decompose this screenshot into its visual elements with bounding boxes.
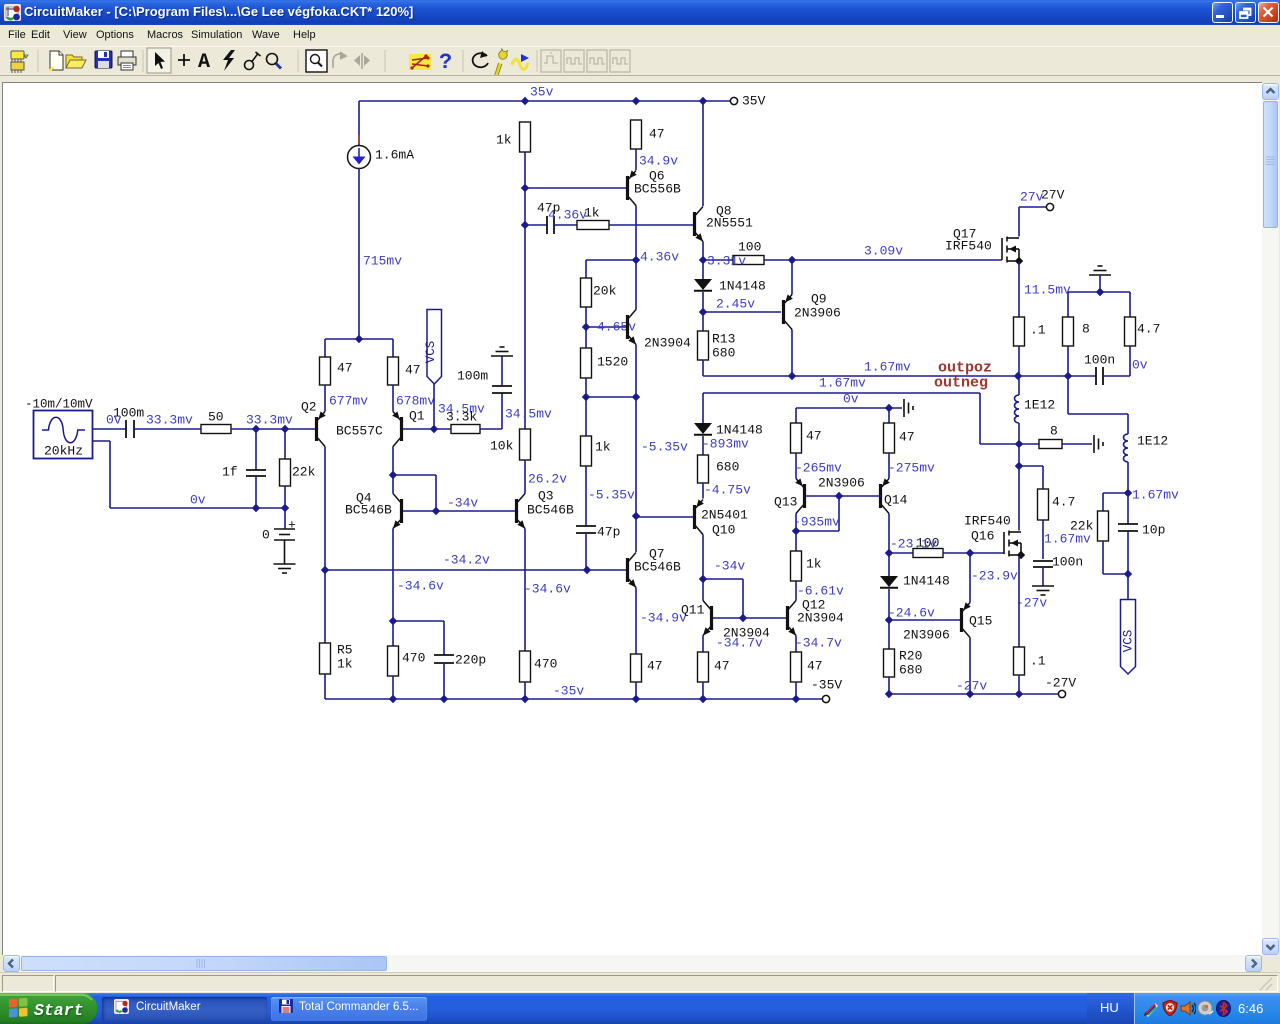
- wire to 47 (Q14): [888, 408, 890, 423]
- wire outneg down: [979, 393, 981, 444]
- wire to L right: [1068, 413, 1128, 415]
- svg-text:0: 0: [262, 528, 270, 543]
- mosfet Q16 IRF540: [1004, 531, 1021, 557]
- svg-text:1.67mv: 1.67mv: [819, 376, 866, 391]
- junction: [632, 695, 640, 703]
- transistor Q8 2N5551 (NPN): [693, 207, 703, 242]
- ground (speaker return): [1089, 266, 1111, 275]
- svg-text:BC557C: BC557C: [336, 424, 383, 439]
- restore button: [1235, 2, 1256, 23]
- junction: [1014, 372, 1022, 380]
- wire Q6 base: [525, 187, 626, 189]
- wire R13 to outpoz: [702, 360, 704, 376]
- svg-text:27V: 27V: [1041, 188, 1065, 203]
- svg-text:-5.35v: -5.35v: [641, 440, 688, 455]
- wire diff collectors rail: [325, 338, 393, 340]
- wire to 220p: [393, 620, 444, 622]
- junction: [739, 614, 747, 622]
- svg-text:47: 47: [405, 363, 421, 378]
- resistor 20k: [581, 278, 592, 307]
- resistor .1 (Q17 source): [1014, 317, 1025, 346]
- wire Q12 emitter: [795, 636, 797, 653]
- svg-text:-34v: -34v: [447, 496, 478, 511]
- menu bar: [0, 25, 1280, 46]
- wire to VCS flag: [1127, 574, 1129, 599]
- svg-text:100n: 100n: [1052, 555, 1083, 570]
- junction: [389, 617, 397, 625]
- svg-text:1N4148: 1N4148: [903, 574, 950, 589]
- wire Q4 emitter down: [392, 529, 394, 647]
- toolbar icon plus: [178, 54, 190, 66]
- resistor 22k (feedback): [1098, 511, 1109, 541]
- svg-text:-5.35v: -5.35v: [588, 488, 635, 503]
- svg-text:-34.7v: -34.7v: [795, 636, 842, 651]
- svg-text:0v: 0v: [190, 493, 206, 508]
- svg-text:Q16: Q16: [971, 529, 994, 544]
- svg-text:100m: 100m: [113, 406, 144, 421]
- wire to 22k: [1103, 492, 1128, 494]
- svg-text:+: +: [288, 518, 296, 533]
- wire D3 to node: [888, 589, 890, 620]
- wire current source to diff pair: [358, 168, 360, 339]
- svg-text:-34v: -34v: [714, 559, 745, 574]
- wire 47 to Q14 emitter: [888, 453, 890, 479]
- wire R50 to Q2 base: [231, 428, 315, 430]
- wire Q8 collector to 35v: [702, 101, 704, 206]
- ground (battery): [274, 564, 296, 573]
- svg-text:-34.6v: -34.6v: [524, 582, 571, 597]
- wire 220p bottom: [443, 663, 445, 699]
- wire 47 to Q13 emitter: [795, 453, 797, 479]
- wire Q9 emitter: [791, 260, 793, 295]
- toolbar icon scope 2 (disabled): [564, 50, 584, 72]
- taskbar button Total Commander: [271, 997, 427, 1021]
- minimize button: [1212, 2, 1233, 23]
- junction: [699, 695, 707, 703]
- transistor Q4 BC546B (NPN): [393, 494, 403, 529]
- svg-text:4.7: 4.7: [1137, 322, 1160, 337]
- svg-text:2N3906: 2N3906: [818, 476, 865, 491]
- transistor Q2 BC557C (PNP): [315, 411, 326, 446]
- transistor Q9 2N3906 (PNP): [782, 294, 793, 329]
- vertical scrollbar: [1262, 83, 1279, 955]
- svg-text:2N3904: 2N3904: [797, 611, 844, 626]
- svg-text:-935mv: -935mv: [793, 515, 840, 530]
- wire Q15 base: [889, 619, 960, 621]
- wire Q8 emitter: [702, 242, 704, 261]
- svg-text:1E12: 1E12: [1137, 434, 1168, 449]
- junction: [430, 425, 438, 433]
- svg-text:47: 47: [714, 659, 730, 674]
- svg-text:1f: 1f: [222, 465, 238, 480]
- wire outneg to D2: [702, 393, 704, 423]
- wire 47 to -35v: [795, 682, 797, 699]
- svg-text:20kHz: 20kHz: [44, 444, 83, 459]
- resistor 4.7: [1125, 317, 1136, 346]
- resistor 47 (Q1): [388, 357, 399, 385]
- svg-text:47: 47: [647, 659, 663, 674]
- svg-text:680: 680: [716, 460, 739, 475]
- wire mirror tie vertical: [838, 496, 840, 531]
- wire Q1 base to 3.3k: [403, 428, 451, 430]
- transistor Q11 2N3904 (NPN): [703, 601, 713, 636]
- resistor R5 1k: [320, 643, 331, 674]
- toolbar icon zoom: [267, 54, 282, 69]
- wire 470 to -35v: [524, 682, 526, 699]
- wire .1 to -27V: [1018, 675, 1020, 694]
- wire L right bottom: [1127, 462, 1129, 493]
- wire Q7 emitter: [635, 588, 637, 655]
- wire 47 to -35v: [702, 682, 704, 699]
- svg-text:Q13: Q13: [774, 495, 797, 510]
- svg-text:-24.6v: -24.6v: [888, 606, 935, 621]
- wire 4.7b to 100n: [1042, 520, 1044, 559]
- transistor Q3 BC546B (NPN): [515, 494, 525, 529]
- wire outneg to node: [980, 443, 1019, 445]
- svg-text:2N5401: 2N5401: [701, 508, 748, 523]
- resistor R20 680: [884, 649, 895, 677]
- wire Q5 emitter: [635, 345, 637, 398]
- wire to D1: [702, 260, 704, 279]
- svg-text:678mv: 678mv: [396, 394, 435, 409]
- junction: [885, 616, 893, 624]
- wire 8-node down: [1067, 376, 1069, 414]
- svg-text:3.3k: 3.3k: [446, 410, 477, 425]
- toolbar icon scope 1 (disabled): [541, 50, 561, 72]
- wire D2 to 680: [702, 436, 704, 455]
- resistor 47 (Q14): [884, 423, 895, 453]
- wire 10p bottom: [1127, 531, 1129, 574]
- wire to 20k: [585, 260, 587, 278]
- wire Q17 drain to 27V: [1018, 207, 1020, 237]
- svg-text:VCS: VCS: [424, 341, 438, 364]
- toolbar icon rotate (disabled): [333, 52, 346, 68]
- toolbar icon print: [118, 51, 136, 70]
- toolbar separator: [297, 50, 299, 72]
- resistor 100 (Q16 gate): [913, 549, 943, 558]
- svg-text:50: 50: [208, 410, 224, 425]
- wire to R8: [1067, 292, 1069, 317]
- svg-text:-265mv: -265mv: [795, 461, 842, 476]
- svg-text:100m: 100m: [457, 369, 488, 384]
- resistor 10k: [520, 429, 531, 460]
- svg-text:VCS: VCS: [1122, 630, 1136, 653]
- svg-text:47: 47: [899, 430, 915, 445]
- ground (bias): [904, 399, 913, 417]
- svg-text:47: 47: [337, 361, 353, 376]
- junction: [966, 549, 974, 557]
- svg-text:Q15: Q15: [969, 614, 992, 629]
- svg-text:IRF540: IRF540: [964, 514, 1011, 529]
- toolbar separator: [462, 50, 464, 72]
- wire Q8 emitter to R100: [703, 259, 733, 261]
- junction: [1064, 372, 1072, 380]
- wire to 10p: [1127, 493, 1129, 524]
- resistor 100 (Q17 gate): [733, 256, 764, 265]
- wire to R47 R: [392, 339, 394, 357]
- wire 47 to Q6 emitter: [635, 149, 637, 170]
- junction: [355, 335, 363, 343]
- junction: [583, 566, 591, 574]
- resistor 1k (Q7): [581, 436, 592, 466]
- svg-text:1k: 1k: [337, 657, 353, 672]
- svg-text:R20: R20: [899, 649, 922, 664]
- junction: [1015, 440, 1023, 448]
- wire L right top: [1127, 414, 1129, 434]
- junction: [632, 393, 640, 401]
- junction: [521, 97, 529, 105]
- svg-text:220p: 220p: [455, 653, 486, 668]
- wire to R100b: [889, 552, 913, 554]
- wire D1 to R13: [702, 292, 704, 331]
- wire down to base rail: [742, 579, 744, 618]
- capacitor 47p: [547, 216, 554, 234]
- wire to R47 L: [324, 339, 326, 357]
- ground (100m): [491, 347, 513, 356]
- capacitor 1f: [246, 470, 266, 476]
- wire 3.3k to 100m: [480, 428, 502, 430]
- toolbar: [0, 46, 1280, 77]
- svg-text:Q9: Q9: [811, 292, 827, 307]
- wire 47p to R 1k: [554, 224, 577, 226]
- svg-text:Q2: Q2: [301, 400, 317, 415]
- wire -35V rail: [325, 698, 822, 700]
- title bar: [0, 0, 1280, 25]
- junction: [582, 393, 590, 401]
- system tray: [1134, 993, 1280, 1024]
- svg-text:33.3mv: 33.3mv: [146, 413, 193, 428]
- toolbar separator: [37, 50, 39, 72]
- wire Q10 base: [636, 516, 693, 518]
- svg-text:Q3: Q3: [538, 489, 554, 504]
- wire Q16 source to .1: [1018, 556, 1020, 647]
- svg-text:1k: 1k: [496, 133, 512, 148]
- wire speaker top: [1068, 291, 1130, 293]
- resistor 470 (Q4): [388, 646, 399, 676]
- terminal 27V: [1046, 203, 1053, 210]
- svg-text:1.67mv: 1.67mv: [1132, 488, 1179, 503]
- wire 100m to R50: [134, 428, 201, 430]
- wire Q14 collector: [888, 514, 890, 554]
- svg-text:1.6mA: 1.6mA: [375, 148, 414, 163]
- wire 22k to 0v: [284, 486, 286, 508]
- wire 470 to -35v: [392, 676, 394, 699]
- wire Q16 drain: [1018, 466, 1020, 531]
- terminal -27V: [1058, 690, 1065, 697]
- wire Q5 collector: [635, 260, 637, 310]
- svg-text:0v: 0v: [843, 392, 859, 407]
- transistor Q7 BC546B (NPN): [626, 553, 636, 588]
- clock: [1238, 1001, 1263, 1016]
- junction: [1096, 288, 1104, 296]
- svg-text:33.3mv: 33.3mv: [246, 413, 293, 428]
- junction: [885, 404, 893, 412]
- svg-text:-35v: -35v: [553, 684, 584, 699]
- battery B1 0V: [274, 508, 295, 564]
- wire source- out: [93, 440, 111, 442]
- wire 20k to node: [585, 307, 587, 327]
- ground (bottom right): [1032, 586, 1054, 595]
- svg-text:2N3906: 2N3906: [903, 628, 950, 643]
- svg-text:-34.7v: -34.7v: [716, 636, 763, 651]
- wire to D3: [888, 553, 890, 576]
- diode D1 1N4148: [694, 279, 712, 290]
- transistor Q10 2N5401 (PNP): [693, 499, 704, 534]
- transistor Q14 2N3906 (PNP): [879, 478, 890, 513]
- svg-text:Start: Start: [34, 1001, 84, 1020]
- svg-text:-34.2v: -34.2v: [443, 553, 490, 568]
- capacitor 10p: [1118, 524, 1138, 531]
- wire y397: [586, 396, 636, 398]
- svg-text:.1: .1: [1030, 654, 1046, 669]
- svg-text:677mv: 677mv: [329, 394, 368, 409]
- wire 27V terminal: [1019, 206, 1046, 208]
- wire VCS to Q1 base: [433, 384, 435, 429]
- mosfet Q17 IRF540: [1002, 237, 1019, 263]
- svg-text:1E12: 1E12: [1024, 398, 1055, 413]
- svg-text:4.7: 4.7: [1052, 495, 1075, 510]
- toolbar icon waveforms: [512, 54, 529, 70]
- capacitor 100n (zobel): [1096, 367, 1103, 385]
- junction: [966, 690, 974, 698]
- svg-text:100: 100: [738, 240, 761, 255]
- start button: [0, 993, 110, 1024]
- resistor 47 (Q7): [631, 654, 642, 682]
- transistor Q12 2N3904 (NPN): [786, 601, 796, 636]
- wire R8 to rail: [1067, 346, 1069, 376]
- wire Q15 collector: [969, 638, 971, 695]
- windows logo: [9, 998, 28, 1018]
- svg-text:-35V: -35V: [811, 678, 842, 693]
- resistor 3.3k: [451, 425, 480, 434]
- svg-text:26.2v: 26.2v: [528, 472, 567, 487]
- svg-text:.1: .1: [1030, 323, 1046, 338]
- capacitor 100m (input): [126, 420, 134, 438]
- svg-text:22k: 22k: [292, 465, 316, 480]
- junction: [281, 504, 289, 512]
- ground (sideways right): [1094, 435, 1103, 453]
- junction: [885, 690, 893, 698]
- resistor 1k (Q8 base): [577, 221, 609, 230]
- junction: [1015, 462, 1023, 470]
- wire mirror tie: [796, 530, 839, 532]
- taskbar button CircuitMaker (active): [102, 997, 267, 1021]
- toolbar icon scope 4 (disabled): [610, 50, 630, 72]
- wire 4.7 to rail: [1129, 346, 1131, 376]
- toolbar icon parts browser: [11, 51, 28, 73]
- wire to 47 (Q13): [795, 408, 797, 423]
- svg-text:-6.61v: -6.61v: [797, 584, 844, 599]
- junction: [792, 695, 800, 703]
- wire node down: [1018, 444, 1020, 466]
- junction: [632, 512, 640, 520]
- junction: [1124, 489, 1132, 497]
- toolbar separator: [384, 50, 386, 72]
- language indicator HU: [1087, 993, 1134, 1024]
- wire outneg: [703, 392, 980, 394]
- wire ground stub: [1099, 275, 1101, 292]
- junction: [440, 695, 448, 703]
- wire to C 47p: [525, 224, 547, 226]
- wire 22k top: [1102, 493, 1104, 511]
- svg-text:BC546B: BC546B: [527, 503, 574, 518]
- wire Q4-Q3 bases: [403, 510, 515, 512]
- wire to 1f: [255, 429, 257, 470]
- svg-text:715mv: 715mv: [363, 254, 402, 269]
- toolbar icon wrench: [492, 48, 509, 77]
- svg-text:-10m/10mV: -10m/10mV: [25, 398, 93, 412]
- wire Q13 collector: [795, 514, 797, 552]
- toolbar separator: [142, 50, 144, 72]
- svg-text:47: 47: [806, 429, 822, 444]
- svg-text:4.36v: 4.36v: [548, 208, 587, 223]
- toolbar icon mirror (disabled): [354, 53, 370, 69]
- junction: [281, 425, 289, 433]
- svg-text:47: 47: [807, 659, 823, 674]
- svg-text:470: 470: [402, 651, 425, 666]
- terminal -35V: [822, 695, 829, 702]
- wire to 4.7b: [1019, 465, 1043, 467]
- diode D3 1N4148: [880, 576, 898, 587]
- status bar: [0, 972, 1280, 994]
- resistor 8 (bottom): [1039, 440, 1062, 449]
- wire Q6 collector: [635, 206, 637, 261]
- transistor Q5 2N3904 (NPN): [626, 310, 636, 345]
- svg-text:1N4148: 1N4148: [716, 423, 763, 438]
- svg-text:-27v: -27v: [956, 679, 987, 694]
- resistor .1 (Q16 source): [1014, 647, 1025, 675]
- taskbar: [0, 993, 1280, 1024]
- resistor 8 (load): [1063, 317, 1074, 346]
- junction: [699, 97, 707, 105]
- transistor Q13 2N3906 (PNP): [795, 478, 806, 513]
- toolbar icon run lightning: [223, 50, 235, 71]
- wire Q2 collector down: [324, 447, 326, 644]
- svg-text:R13: R13: [712, 332, 735, 347]
- junction: [521, 695, 529, 703]
- junction: [885, 549, 893, 557]
- svg-text:-23.9v: -23.9v: [971, 569, 1018, 584]
- svg-text:0v: 0v: [1132, 358, 1148, 373]
- svg-text:3.31v: 3.31v: [707, 254, 746, 269]
- wire R5 to -35v: [324, 674, 326, 699]
- junction: [699, 256, 707, 264]
- wire 100m bottom: [501, 393, 503, 429]
- wire Q9 collector: [791, 330, 793, 377]
- svg-text:1k: 1k: [806, 557, 822, 572]
- source V1 -10m/10mV 20kHz: [34, 411, 93, 459]
- wire source- down: [109, 441, 111, 508]
- app icon: [4, 4, 21, 21]
- resistor 50: [201, 425, 231, 434]
- svg-text:1.67mv: 1.67mv: [864, 360, 911, 375]
- wire 22k to node: [1103, 573, 1128, 575]
- svg-text:Q1: Q1: [409, 409, 425, 424]
- wire R47 to Q1 emitter: [392, 385, 394, 412]
- wire 35v rail: [359, 100, 730, 102]
- wire -34.2v rail: [325, 569, 626, 571]
- inductor 1E12 (left): [1015, 395, 1020, 423]
- wire Q10 collector to Q11: [702, 535, 704, 601]
- wire Q1 collector down: [392, 447, 394, 476]
- resistor 1k (35v to Q6 base): [520, 122, 531, 152]
- wire Q11 emitter: [702, 636, 704, 653]
- svg-text:BC546B: BC546B: [634, 560, 681, 575]
- svg-text:-23.1v: -23.1v: [890, 537, 937, 552]
- junction: [389, 695, 397, 703]
- svg-text:10p: 10p: [1142, 523, 1165, 538]
- wire zobel to 4.7: [1103, 375, 1130, 377]
